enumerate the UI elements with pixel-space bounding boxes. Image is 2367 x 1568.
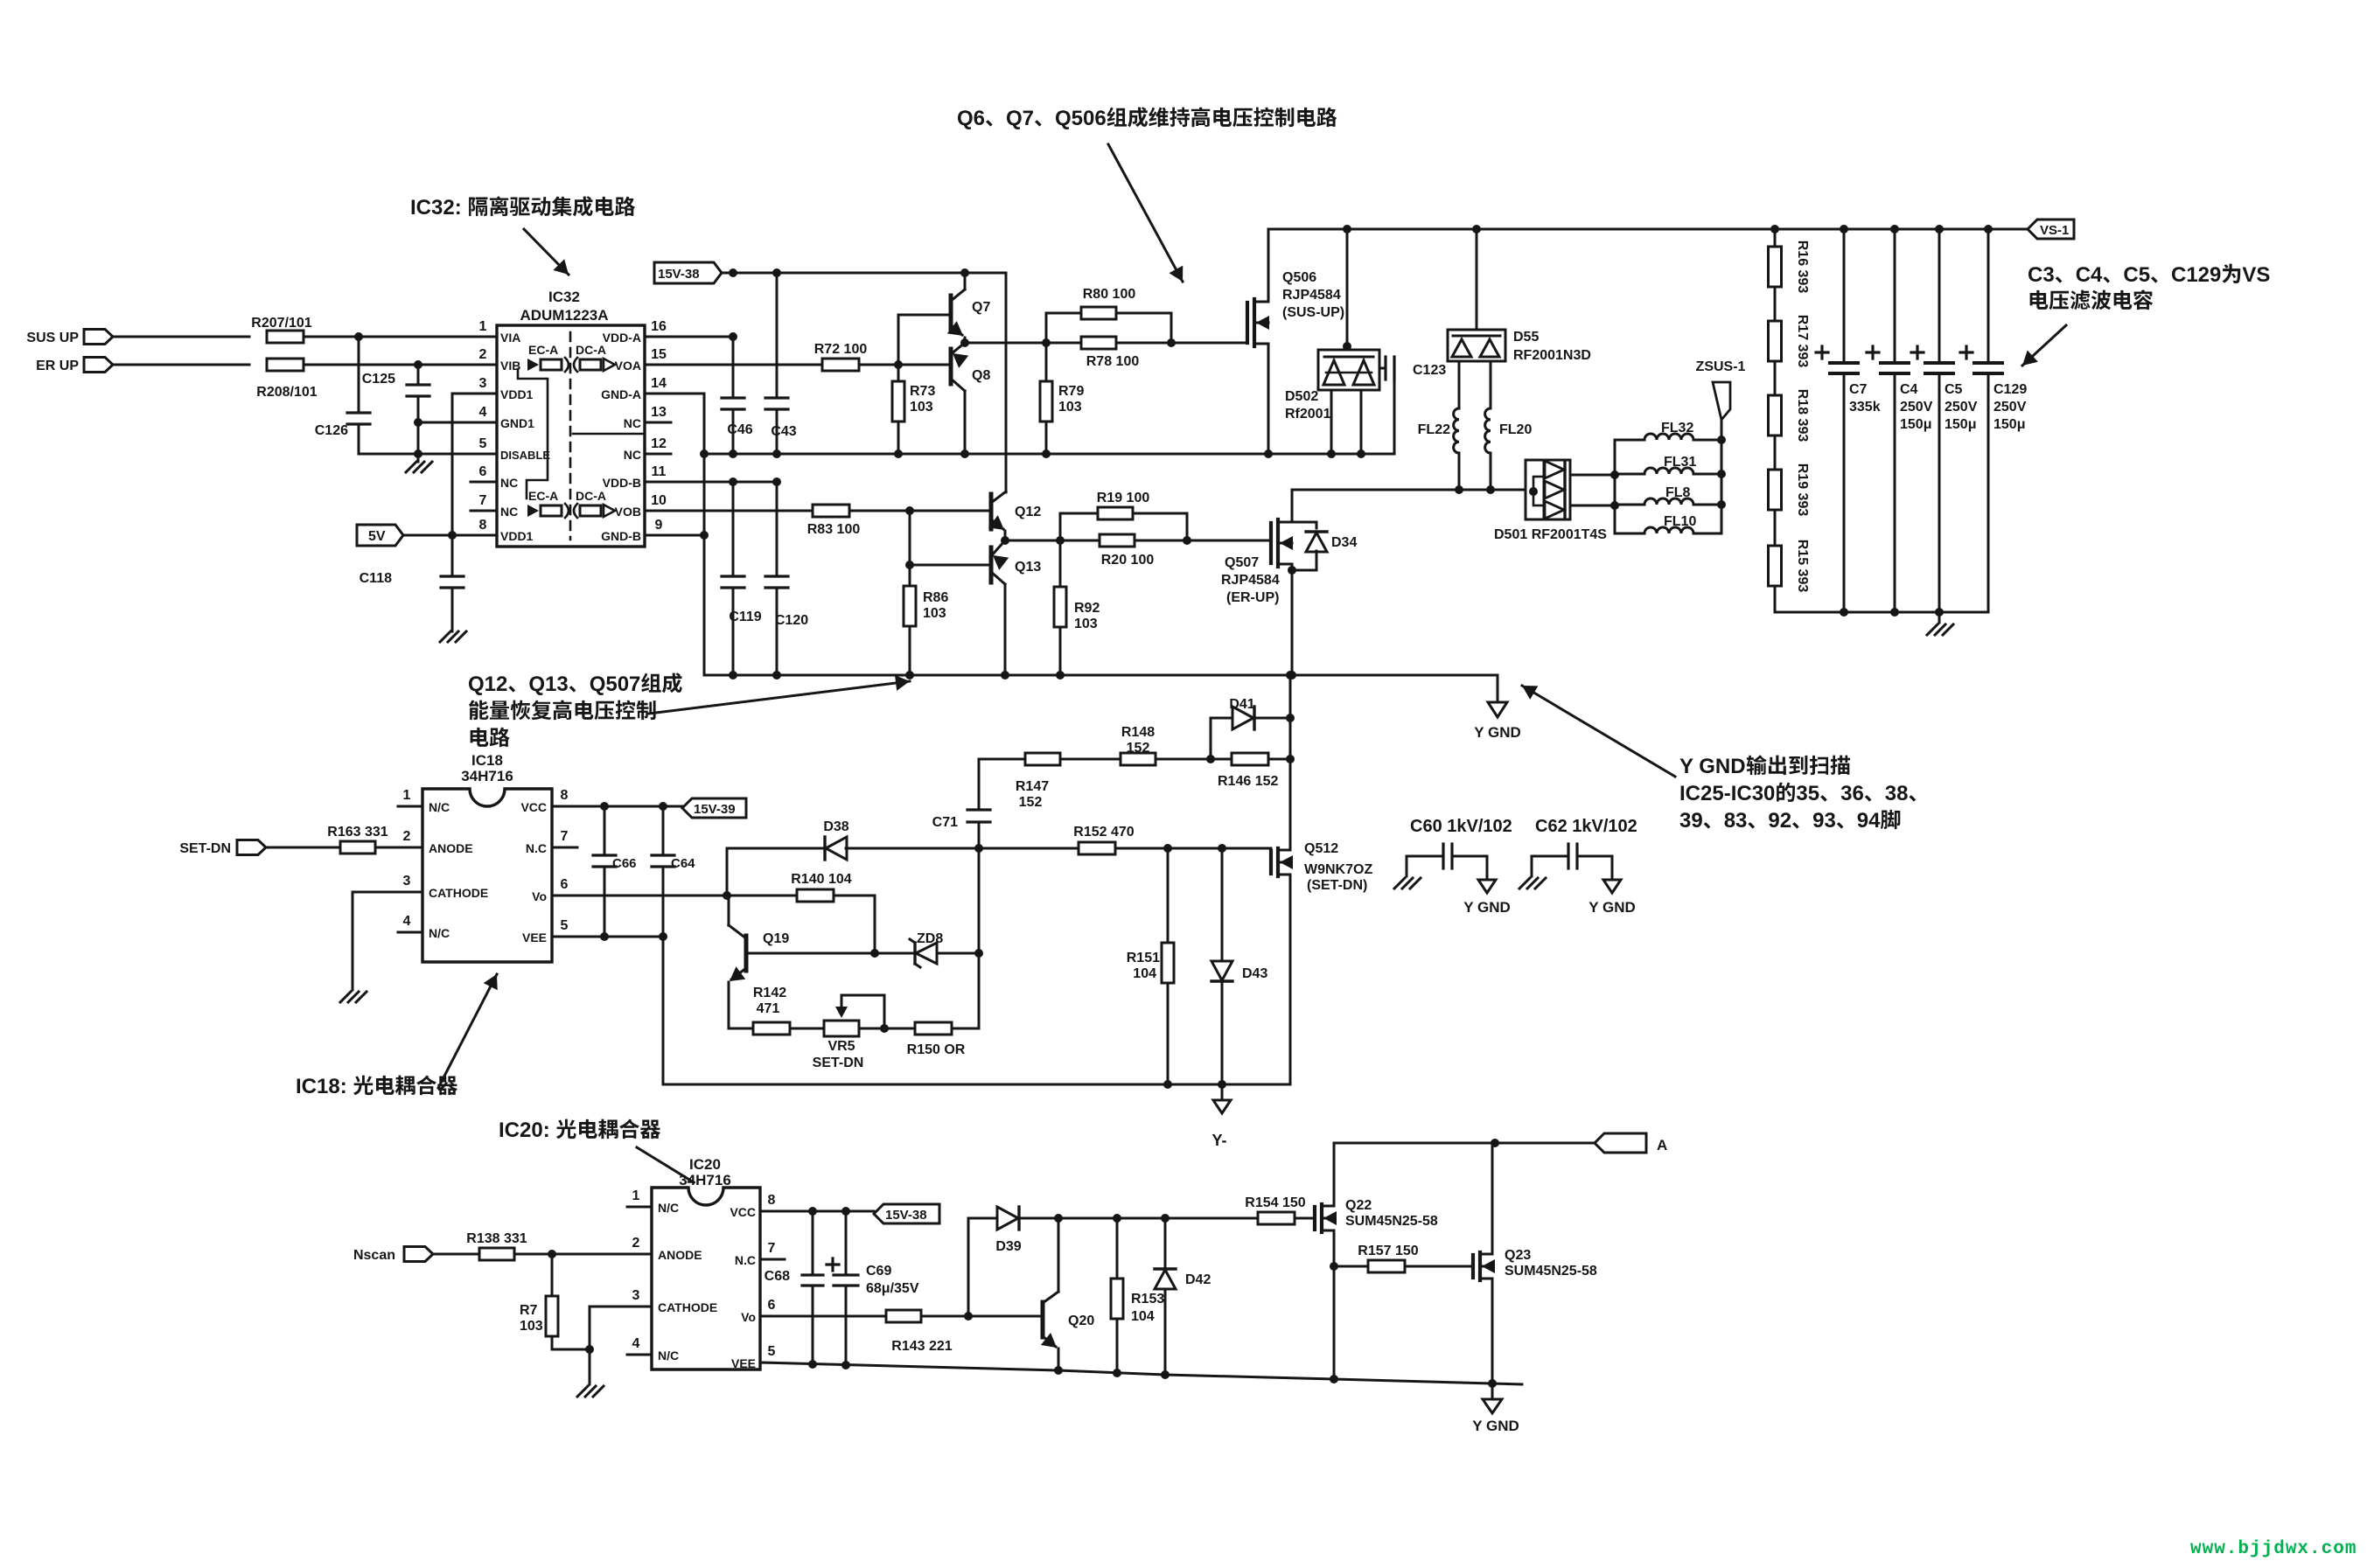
svg-text:VEE: VEE xyxy=(522,930,547,944)
svg-text:5: 5 xyxy=(768,1344,776,1359)
svg-text:Y GND: Y GND xyxy=(1472,1418,1519,1434)
svg-text:D39: D39 xyxy=(995,1239,1021,1254)
svg-text:Q506: Q506 xyxy=(1282,270,1316,285)
svg-text:39: 39 xyxy=(1679,809,1703,833)
svg-text:D41: D41 xyxy=(1229,697,1254,712)
svg-text:ZSUS-1: ZSUS-1 xyxy=(1696,359,1746,374)
svg-text:FL20: FL20 xyxy=(1499,422,1532,437)
svg-text:83: 83 xyxy=(1724,809,1748,833)
svg-text:N.C: N.C xyxy=(735,1253,756,1267)
svg-text:152: 152 xyxy=(1127,741,1150,756)
svg-text:Q20: Q20 xyxy=(1068,1314,1094,1328)
svg-text:Q12: Q12 xyxy=(1015,505,1041,519)
svg-text:C120: C120 xyxy=(775,613,808,628)
svg-text:FL32: FL32 xyxy=(1661,421,1693,436)
svg-text:8: 8 xyxy=(768,1193,776,1208)
svg-text:Vo: Vo xyxy=(532,889,547,903)
svg-text:R157 150: R157 150 xyxy=(1358,1244,1418,1258)
svg-text:15V-38: 15V-38 xyxy=(885,1208,927,1223)
svg-text:C60 1kV/102: C60 1kV/102 xyxy=(1410,817,1512,836)
svg-text:C118: C118 xyxy=(360,571,392,586)
svg-text:D38: D38 xyxy=(823,819,848,834)
svg-text:www.bjjdwx.com: www.bjjdwx.com xyxy=(2190,1539,2357,1559)
svg-text:6: 6 xyxy=(768,1298,776,1313)
svg-text:VS-1: VS-1 xyxy=(2040,223,2069,238)
svg-text:VCC: VCC xyxy=(730,1205,756,1219)
svg-text:1: 1 xyxy=(632,1188,640,1203)
svg-text:IC18:: IC18: xyxy=(296,1075,347,1098)
svg-text:3: 3 xyxy=(403,874,411,889)
svg-text:R16 393: R16 393 xyxy=(1795,240,1810,294)
svg-text:VDD1: VDD1 xyxy=(500,387,534,401)
svg-text:35: 35 xyxy=(1796,782,1819,805)
svg-text:Vo: Vo xyxy=(741,1310,756,1324)
svg-text:VOA: VOA xyxy=(615,359,641,373)
svg-text:150μ: 150μ xyxy=(1900,417,1931,432)
svg-text:IC25-IC30: IC25-IC30 xyxy=(1679,782,1775,805)
svg-text:R140 104: R140 104 xyxy=(791,872,851,887)
svg-text:15V-39: 15V-39 xyxy=(694,802,736,817)
svg-text:34H716: 34H716 xyxy=(679,1172,731,1188)
svg-text:6: 6 xyxy=(561,877,569,892)
svg-text:C43: C43 xyxy=(771,424,796,439)
svg-text:A: A xyxy=(1657,1137,1667,1153)
svg-text:103: 103 xyxy=(1058,400,1082,415)
svg-text:4: 4 xyxy=(479,405,487,420)
svg-text:FL31: FL31 xyxy=(1664,455,1696,470)
svg-text:R146 152: R146 152 xyxy=(1218,774,1278,789)
svg-text:335k: 335k xyxy=(1849,400,1881,415)
svg-text:C126: C126 xyxy=(315,423,348,438)
svg-text:CATHODE: CATHODE xyxy=(429,886,488,900)
svg-text:Y GND: Y GND xyxy=(1463,899,1511,916)
svg-text:R18 393: R18 393 xyxy=(1795,389,1810,443)
svg-text:NC: NC xyxy=(624,416,641,430)
svg-text:Q22: Q22 xyxy=(1345,1198,1372,1213)
svg-text:15V-38: 15V-38 xyxy=(658,267,700,282)
svg-text:103: 103 xyxy=(910,400,933,415)
svg-text:VIA: VIA xyxy=(500,331,520,345)
svg-text:IC32:: IC32: xyxy=(410,196,462,220)
svg-text:R15 393: R15 393 xyxy=(1795,540,1810,593)
svg-text:R7: R7 xyxy=(520,1303,538,1318)
svg-text:VDD-B: VDD-B xyxy=(603,476,641,490)
svg-text:3: 3 xyxy=(479,376,487,391)
svg-text:8: 8 xyxy=(479,518,487,533)
svg-text:9: 9 xyxy=(655,518,663,533)
svg-text:R78 100: R78 100 xyxy=(1086,354,1140,369)
svg-text:N/C: N/C xyxy=(429,926,450,940)
svg-text:104: 104 xyxy=(1131,1309,1155,1324)
svg-text:Q6: Q6 xyxy=(957,107,985,130)
svg-text:VOB: VOB xyxy=(615,505,641,519)
svg-text:IC32: IC32 xyxy=(548,289,580,305)
svg-text:C4: C4 xyxy=(2076,263,2103,287)
svg-text:94: 94 xyxy=(1857,809,1881,833)
svg-text:D501 RF2001T4S: D501 RF2001T4S xyxy=(1494,527,1607,542)
svg-text:R17 393: R17 393 xyxy=(1795,315,1810,368)
svg-text:GND1: GND1 xyxy=(500,416,534,430)
svg-text:DISABLE: DISABLE xyxy=(500,449,550,462)
svg-text:ADUM1223A: ADUM1223A xyxy=(520,307,608,324)
svg-text:R207/101: R207/101 xyxy=(251,316,311,331)
svg-text:5: 5 xyxy=(479,436,487,451)
svg-text:Rf2001: Rf2001 xyxy=(1285,407,1331,422)
svg-text:92: 92 xyxy=(1768,809,1791,833)
svg-text:103: 103 xyxy=(1074,617,1098,631)
svg-text:C4: C4 xyxy=(1900,382,1918,397)
svg-text:Nscan: Nscan xyxy=(353,1248,395,1263)
svg-text:C119: C119 xyxy=(729,610,761,624)
svg-text:Q13: Q13 xyxy=(1015,560,1041,575)
svg-text:68μ/35V: 68μ/35V xyxy=(866,1281,919,1296)
svg-text:11: 11 xyxy=(652,464,667,479)
svg-text:SUM45N25-58: SUM45N25-58 xyxy=(1345,1214,1438,1229)
svg-text:FL22: FL22 xyxy=(1418,422,1450,437)
svg-text:104: 104 xyxy=(1133,966,1156,981)
svg-text:3: 3 xyxy=(632,1288,640,1303)
svg-text:D55: D55 xyxy=(1513,330,1539,345)
svg-text:FL8: FL8 xyxy=(1665,485,1691,500)
svg-text:R73: R73 xyxy=(910,384,935,399)
svg-text:IC18: IC18 xyxy=(471,752,503,769)
svg-text:5V: 5V xyxy=(368,529,386,544)
svg-text:34H716: 34H716 xyxy=(461,768,513,784)
svg-text:2: 2 xyxy=(632,1236,640,1251)
svg-text:Q19: Q19 xyxy=(763,931,789,946)
svg-text:(SUS-UP): (SUS-UP) xyxy=(1282,305,1344,320)
svg-text:D43: D43 xyxy=(1242,966,1267,981)
svg-text:ZD8: ZD8 xyxy=(917,931,943,946)
svg-text:DC-A: DC-A xyxy=(576,489,606,503)
svg-text:15: 15 xyxy=(651,347,667,362)
svg-text:38: 38 xyxy=(1885,782,1909,805)
svg-text:NC: NC xyxy=(500,505,518,519)
svg-text:7: 7 xyxy=(561,829,569,844)
svg-text:R20 100: R20 100 xyxy=(1101,553,1155,568)
svg-text:2: 2 xyxy=(479,347,487,362)
svg-text:8: 8 xyxy=(561,788,569,803)
svg-text:R147: R147 xyxy=(1016,779,1049,794)
svg-text:GND-B: GND-B xyxy=(601,529,641,543)
svg-text:103: 103 xyxy=(923,606,946,621)
svg-text:Y GND: Y GND xyxy=(1474,724,1521,741)
svg-text:4: 4 xyxy=(403,914,411,929)
svg-text:14: 14 xyxy=(651,376,667,391)
svg-text:C68: C68 xyxy=(765,1269,790,1284)
svg-text:(SET-DN): (SET-DN) xyxy=(1307,878,1367,893)
svg-text:7: 7 xyxy=(768,1241,776,1256)
svg-text:R83 100: R83 100 xyxy=(807,522,861,537)
svg-text:R150 OR: R150 OR xyxy=(907,1042,966,1057)
svg-text:13: 13 xyxy=(651,405,667,420)
svg-text:RF2001N3D: RF2001N3D xyxy=(1513,348,1591,363)
svg-text:1: 1 xyxy=(403,788,411,803)
svg-text:R80 100: R80 100 xyxy=(1083,287,1136,302)
svg-text:250V: 250V xyxy=(1900,400,1933,415)
svg-text:C62 1kV/102: C62 1kV/102 xyxy=(1535,817,1637,836)
svg-text:C66: C66 xyxy=(612,856,637,871)
svg-text:R142: R142 xyxy=(753,986,786,1000)
svg-text:C46: C46 xyxy=(727,422,752,437)
svg-text:IC20:: IC20: xyxy=(499,1119,550,1142)
svg-text:NC: NC xyxy=(500,476,518,490)
svg-text:5: 5 xyxy=(561,918,569,933)
svg-text:SET-DN: SET-DN xyxy=(813,1056,864,1070)
svg-text:D42: D42 xyxy=(1185,1272,1211,1287)
svg-text:Y-: Y- xyxy=(1211,1132,1226,1149)
svg-text:2: 2 xyxy=(403,829,411,844)
svg-text:C3: C3 xyxy=(2028,263,2055,287)
svg-text:RJP4584: RJP4584 xyxy=(1282,288,1341,303)
svg-text:250V: 250V xyxy=(1945,400,1978,415)
svg-text:C71: C71 xyxy=(932,815,958,830)
svg-text:R151: R151 xyxy=(1127,951,1160,965)
svg-text:C129: C129 xyxy=(2171,263,2221,287)
svg-text:R19 100: R19 100 xyxy=(1097,491,1150,505)
svg-text:VCC: VCC xyxy=(520,800,547,814)
svg-text:NC: NC xyxy=(624,448,641,462)
svg-text:C129: C129 xyxy=(1993,382,2027,397)
svg-text:Q506: Q506 xyxy=(1055,107,1107,130)
svg-text:FL10: FL10 xyxy=(1664,514,1696,529)
svg-text:C69: C69 xyxy=(866,1264,891,1279)
svg-text:R72 100: R72 100 xyxy=(814,342,868,357)
svg-text:SET-DN: SET-DN xyxy=(179,841,231,856)
svg-text:N/C: N/C xyxy=(658,1201,679,1215)
svg-text:C125: C125 xyxy=(362,372,395,387)
svg-text:C7: C7 xyxy=(1849,382,1868,397)
svg-text:Q507: Q507 xyxy=(590,672,641,696)
svg-text:W9NK7OZ: W9NK7OZ xyxy=(1304,862,1372,877)
svg-text:1: 1 xyxy=(479,319,487,334)
svg-text:R153: R153 xyxy=(1131,1292,1164,1307)
svg-text:16: 16 xyxy=(651,319,667,334)
svg-text:GND-A: GND-A xyxy=(601,387,641,401)
svg-text:Y GND: Y GND xyxy=(1588,899,1636,916)
svg-text:VS: VS xyxy=(2242,263,2270,287)
svg-text:R86: R86 xyxy=(923,590,948,605)
svg-text:DC-A: DC-A xyxy=(576,343,606,357)
svg-text:SUM45N25-58: SUM45N25-58 xyxy=(1505,1264,1597,1279)
svg-text:R154 150: R154 150 xyxy=(1245,1195,1305,1210)
svg-text:R152 470: R152 470 xyxy=(1073,825,1134,840)
svg-text:7: 7 xyxy=(479,493,487,508)
svg-text:Q7: Q7 xyxy=(972,300,990,315)
svg-text:36: 36 xyxy=(1840,782,1864,805)
svg-text:Q512: Q512 xyxy=(1304,841,1338,856)
svg-text:VDD-A: VDD-A xyxy=(603,331,641,345)
svg-text:SUS UP: SUS UP xyxy=(26,331,79,345)
svg-text:R138 331: R138 331 xyxy=(466,1231,527,1246)
svg-text:VEE: VEE xyxy=(731,1356,756,1370)
svg-text:(ER-UP): (ER-UP) xyxy=(1226,590,1279,605)
svg-text:R148: R148 xyxy=(1121,725,1155,740)
svg-text:R163 331: R163 331 xyxy=(327,825,388,840)
svg-text:6: 6 xyxy=(479,464,487,479)
svg-text:CATHODE: CATHODE xyxy=(658,1300,717,1314)
svg-text:Q8: Q8 xyxy=(972,368,990,383)
svg-text:VR5: VR5 xyxy=(827,1039,855,1054)
svg-text:N.C: N.C xyxy=(526,841,547,855)
svg-text:12: 12 xyxy=(651,436,667,451)
svg-text:R19 393: R19 393 xyxy=(1795,463,1810,517)
svg-text:Q13: Q13 xyxy=(528,672,568,696)
svg-text:ANODE: ANODE xyxy=(658,1248,702,1262)
svg-text:93: 93 xyxy=(1812,809,1836,833)
svg-text:Q507: Q507 xyxy=(1225,555,1259,570)
svg-text:R92: R92 xyxy=(1074,601,1100,616)
svg-text:C5: C5 xyxy=(1945,382,1963,397)
svg-text:R79: R79 xyxy=(1058,384,1084,399)
svg-text:471: 471 xyxy=(757,1001,780,1016)
svg-text:R143 221: R143 221 xyxy=(891,1339,952,1354)
svg-text:N/C: N/C xyxy=(658,1348,679,1362)
svg-text:Q7: Q7 xyxy=(1006,107,1034,130)
svg-text:150μ: 150μ xyxy=(1993,417,2025,432)
svg-text:C5: C5 xyxy=(2123,263,2150,287)
svg-text:RJP4584: RJP4584 xyxy=(1221,573,1280,588)
svg-text:D34: D34 xyxy=(1331,535,1357,550)
svg-text:150μ: 150μ xyxy=(1945,417,1976,432)
svg-text:10: 10 xyxy=(651,493,667,508)
svg-text:103: 103 xyxy=(520,1319,543,1334)
svg-text:D502: D502 xyxy=(1285,389,1318,404)
svg-text:ER UP: ER UP xyxy=(36,359,79,373)
svg-text:250V: 250V xyxy=(1993,400,2027,415)
svg-text:Q12: Q12 xyxy=(468,672,507,696)
svg-text:4: 4 xyxy=(632,1336,640,1351)
svg-text:ANODE: ANODE xyxy=(429,841,473,855)
svg-text:Y GND: Y GND xyxy=(1679,755,1746,778)
svg-text:152: 152 xyxy=(1019,795,1043,810)
svg-text:C123: C123 xyxy=(1413,363,1446,378)
svg-text:N/C: N/C xyxy=(429,800,450,814)
svg-text:C64: C64 xyxy=(671,856,695,871)
svg-text:IC20: IC20 xyxy=(689,1156,721,1173)
svg-text:EC-A: EC-A xyxy=(528,343,558,357)
svg-text:EC-A: EC-A xyxy=(528,489,558,503)
svg-text:Q23: Q23 xyxy=(1505,1248,1531,1263)
svg-text:R208/101: R208/101 xyxy=(256,385,317,400)
svg-text:VDD1: VDD1 xyxy=(500,529,534,543)
